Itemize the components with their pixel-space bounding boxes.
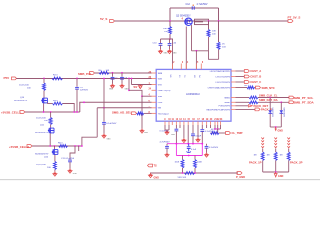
node small connector left of bottom rail	[148, 164, 153, 167]
pin bottom 22 of U1	[217, 121, 219, 125]
svg-text:VDB: VDB	[158, 78, 163, 80]
wire top bypass left vertical	[169, 8, 171, 21]
pin bottom 16 of U1	[192, 121, 194, 125]
svg-text:GND: GND	[278, 130, 284, 133]
pin left 24 CMBTTG(PG) of U1	[152, 89, 157, 91]
resistor R10 below Q12	[54, 155, 56, 162]
pin bottom 17 of U1	[197, 121, 199, 125]
svg-text:100pF: 100pF	[195, 135, 201, 137]
svg-text:SMB_NTC: SMB_NTC	[262, 86, 275, 90]
resistor R15 1M sense divider	[262, 149, 264, 153]
resistor R8 10K	[208, 21, 210, 30]
pin top 4 of U1	[185, 64, 187, 70]
svg-text:PACKP/SHLP/CMP/2GPS: PACKP/SHLP/CMP/2GPS	[206, 108, 230, 111]
wire to pin5	[142, 95, 152, 97]
junction bottom rail left	[182, 172, 184, 174]
svg-text:C12: C12	[186, 3, 191, 6]
svg-text:1M: 1M	[254, 155, 257, 157]
svg-text:10,15,100: 10,15,100	[36, 164, 47, 166]
svg-text:+5VSB_CELL1: +5VSB_CELL1	[1, 110, 21, 114]
transistor Q3 SI9435DY	[185, 18, 192, 25]
junction on bus at x208.5	[208, 20, 210, 22]
wire +5V feed	[17, 78, 152, 80]
pin right 19 SMB0 of U1	[231, 101, 236, 103]
resistor R20 on bottom rail	[185, 172, 195, 175]
svg-text:VIN: VIN	[158, 108, 162, 110]
junction magenta x202	[201, 143, 203, 145]
pin left 8 Thermalpad of U1	[152, 112, 157, 114]
svg-text:GND: GND	[154, 177, 160, 180]
junction gate node	[196, 50, 198, 52]
svg-text:AOZ9006AI: AOZ9006AI	[186, 92, 200, 96]
capacitor C14 100pF	[192, 125, 194, 133]
svg-text:10K: 10K	[163, 28, 167, 30]
wire gate node step	[209, 51, 219, 60]
pin right 22 LX/OUT2/2GPS of U1	[231, 81, 236, 83]
node CL off-page connector	[226, 132, 231, 135]
ground below C10	[160, 49, 162, 51]
pin right 17 PACKP/SHLP/CMP/2GPS of U1	[231, 108, 236, 110]
svg-text:Q3 SI9435DY: Q3 SI9435DY	[176, 15, 191, 18]
test point symbol below pin3 wire	[139, 85, 141, 86]
capacitor C7	[112, 73, 114, 77]
resistor R11 to pin8	[136, 112, 138, 114]
wire pin x188 to magenta net	[187, 125, 189, 144]
capacitor C11 0.1uF/50	[68, 159, 72, 161]
wire bottom rail	[150, 172, 238, 174]
capacitor C9 0.1uF/50V	[103, 79, 105, 122]
wire Q10 source down to feed2	[43, 103, 45, 112]
pin bottom 10 of U1	[168, 121, 170, 125]
svg-text:LX/OUT2/2GPS: LX/OUT2/2GPS	[216, 82, 231, 84]
resistor R3 10K gate	[43, 78, 45, 83]
svg-text:GND: GND	[144, 132, 149, 134]
resistor R19 100K	[194, 156, 196, 160]
resistor R16 1M sense divider	[275, 149, 277, 153]
resistor R9 0 on Q10 drain line	[53, 102, 63, 105]
pin bottom 9 of U1	[164, 121, 166, 125]
wire top bypass horizontal	[170, 7, 219, 9]
resistor R7 10K gate pull-up	[169, 21, 171, 27]
wire feed3 stub down x78.7	[78, 146, 80, 151]
svg-text:LX/OUT1/2GPS: LX/OUT1/2GPS	[216, 76, 231, 78]
pin bottom 15 of U1	[187, 121, 189, 125]
capacitor C8	[121, 73, 123, 77]
pin top 3 of U1	[180, 64, 182, 70]
pin bottom 18 of U1	[201, 121, 203, 125]
resistor R9 1K	[218, 21, 220, 42]
svg-text:SMB_PT_SDA: SMB_PT_SDA	[294, 101, 315, 105]
ground at left end of bottom rail	[150, 173, 152, 175]
pin top 5 of U1	[195, 64, 197, 70]
junction pin7 cap branch	[103, 107, 105, 109]
wire gate node horizontal	[192, 50, 209, 52]
svg-text:R9 0: R9 0	[53, 100, 58, 102]
svg-text:CHST_A: CHST_A	[250, 69, 261, 73]
ground pin x198	[197, 125, 199, 138]
junction x129 lower	[128, 89, 130, 91]
pin bottom 20 of U1	[210, 121, 212, 125]
svg-text:CL_TMP: CL_TMP	[232, 131, 243, 135]
svg-text:0.1uF: 0.1uF	[191, 149, 197, 151]
junction feed3 Q12	[54, 145, 56, 147]
wire current limit pins	[214, 125, 216, 129]
wire diode bottoms	[270, 126, 281, 128]
wire gate node to IC top pin	[195, 51, 197, 70]
capacitor C12 4.7uF/50V	[191, 6, 193, 9]
ground below C11	[69, 169, 71, 171]
junction +5V at Q10 branch	[43, 78, 45, 80]
wire sense chevron column 1	[261, 138, 264, 140]
svg-text:CHST_B: CHST_B	[250, 75, 261, 79]
pin bottom 11 of U1	[171, 121, 173, 125]
diode D1 B5819WS	[269, 98, 271, 111]
svg-text:VTB: VTB	[158, 84, 163, 86]
capacitor C19 4.7uF right	[206, 144, 208, 146]
wire sense bottoms	[263, 171, 289, 173]
junction feed2 Q10	[43, 111, 45, 113]
junction SMB data diode branch	[280, 101, 282, 103]
wire magenta right vertical	[201, 144, 203, 156]
wire pins x206 x210 down	[206, 125, 208, 128]
junction magenta x176	[176, 143, 178, 145]
svg-text:SMB_DAT_DA: SMB_DAT_DA	[259, 98, 278, 102]
junction pin6 line	[83, 101, 85, 103]
transistor Q11 SI2305DS	[50, 125, 52, 128]
pin right 18 POE2/2GPS of U1	[231, 105, 236, 107]
junction SMB clock diode branch	[269, 97, 271, 99]
svg-text:PWR: PWR	[158, 102, 163, 104]
ground below sense block	[274, 174, 277, 177]
wire SMB data net with resistor R14	[236, 101, 250, 103]
junction SMB cap1	[112, 72, 114, 74]
svg-text:CMBTTG(PG): CMBTTG(PG)	[158, 90, 171, 92]
junction +5V at x129	[128, 78, 130, 80]
svg-text:PT_5V_S: PT_5V_S	[288, 15, 301, 19]
svg-text:SI2305DS/TV: SI2305DS/TV	[35, 154, 49, 156]
svg-text:GND: GND	[171, 134, 176, 136]
junction diode bottom center	[275, 126, 277, 128]
svg-text:1uF/50V: 1uF/50V	[80, 90, 89, 92]
svg-text:WV: WV	[134, 86, 138, 89]
svg-text:SMB_CLK_CL: SMB_CLK_CL	[259, 93, 278, 97]
junction feed2 Q11 branch	[50, 111, 52, 113]
svg-text:SMB: SMB	[158, 73, 163, 75]
svg-text:SMB_AD_SEL: SMB_AD_SEL	[112, 111, 132, 115]
resistor R17 1M sense divider	[288, 149, 290, 153]
svg-text:SMB1: SMB1	[224, 97, 230, 99]
wire magenta left vertical	[175, 144, 177, 156]
junction +5V at cap branch	[76, 78, 78, 80]
svg-text:SI2305DS/TV: SI2305DS/TV	[14, 100, 28, 102]
wire pin4 net	[129, 90, 142, 96]
pin left 6 PWR of U1	[152, 101, 157, 103]
svg-text:GND: GND	[125, 89, 130, 91]
resistor R17 current limit	[211, 132, 220, 135]
pin right 21 CHSTTCMACONE2GPS of U1	[231, 87, 236, 89]
junction magenta bottom center	[188, 155, 190, 157]
svg-text:0.1uF/50: 0.1uF/50	[160, 130, 169, 132]
wire Q10 drain line to pin6 line	[46, 102, 49, 104]
svg-text:+5VSB_CELL2: +5VSB_CELL2	[9, 145, 29, 149]
resistor R5 on Q11 branch	[50, 112, 52, 118]
pin bottom 21 of U1	[214, 121, 216, 125]
wire magenta net top	[167, 143, 202, 145]
resistor R4 103 on SMB wire	[99, 71, 109, 74]
svg-text:R2 0: R2 0	[53, 75, 58, 77]
pin right 23 LX/OUT1/2GPS of U1	[231, 76, 236, 78]
svg-text:GND: GND	[164, 53, 169, 55]
svg-text:B5819WS: B5819WS	[272, 107, 274, 117]
transistor Q10 SI2305DS	[43, 91, 45, 98]
junction on bus at x170	[169, 20, 171, 22]
wire R8 to gate node	[208, 37, 210, 51]
pin bottom 19 of U1	[206, 121, 208, 125]
resistor R6 on feed3	[59, 145, 68, 148]
junction feed3 x75	[74, 145, 76, 147]
wire right pin PACK_P	[236, 108, 256, 110]
svg-text:PACK_2P: PACK_2P	[290, 160, 303, 164]
svg-text:SMB_PT_SCL: SMB_PT_SCL	[294, 96, 314, 100]
pin bottom 23 of U1	[220, 121, 222, 125]
junction feed2 x77	[76, 111, 78, 113]
svg-text:SMB_P/U: SMB_P/U	[78, 72, 91, 76]
resistor R2 on +5V feed	[52, 77, 63, 80]
diode D2 B5819WS	[280, 102, 282, 110]
wire right status net CHST_A	[236, 70, 245, 72]
svg-text:B5819WS: B5819WS	[284, 107, 286, 117]
junction on bus at x218.5	[218, 20, 220, 22]
fuse F1 series element	[195, 19, 209, 24]
svg-text:Thermalpad: Thermalpad	[158, 113, 169, 115]
svg-text:VR1 103: VR1 103	[178, 177, 187, 179]
svg-text:P_GND: P_GND	[236, 175, 245, 179]
ground below C16	[169, 49, 171, 51]
wire x129 branch down	[128, 78, 130, 90]
svg-text:CHST_C: CHST_C	[250, 80, 261, 84]
svg-text:SMB0: SMB0	[224, 102, 230, 104]
svg-text:SI2305DS/TV: SI2305DS/TV	[35, 132, 49, 134]
svg-text:GND: GND	[109, 89, 114, 91]
svg-text:GND: GND	[278, 175, 284, 178]
ground below C18	[166, 153, 168, 155]
pin left 1 VTB of U1	[152, 84, 157, 86]
svg-text:100K: 100K	[175, 162, 180, 164]
ground below C19	[206, 153, 208, 155]
svg-text:4.7uF/50V: 4.7uF/50V	[197, 3, 208, 6]
junction feed3 x78.7	[78, 145, 80, 147]
pin right 24 LX/OUT1A/POE2/2PD of U1	[231, 70, 236, 72]
wire feed2 up to pin6 line	[80, 102, 152, 112]
svg-text:GND: GND	[173, 53, 178, 55]
svg-text:C11 0.1uF/50: C11 0.1uF/50	[61, 158, 75, 160]
svg-text:TS: TS	[154, 165, 158, 168]
pin bottom 14 of U1	[183, 121, 185, 125]
ground pin x183.9	[183, 125, 185, 138]
ground below C7	[112, 84, 114, 86]
wire top bypass right vertical	[218, 8, 220, 21]
svg-text:GND: GND	[107, 139, 112, 141]
wire Q3 source to IC top pin	[185, 27, 187, 70]
capacitor C15 4.7uF/50V	[201, 125, 203, 129]
svg-text:PACK_1P: PACK_1P	[249, 160, 262, 164]
pin left 4 VGB of U1	[152, 95, 157, 97]
wire feed2	[25, 111, 80, 113]
wire x75 down to cap	[70, 146, 75, 160]
svg-text:CHSTTCMACONE2GPS: CHSTTCMACONE2GPS	[208, 86, 231, 89]
wire Q11 down to feed3	[49, 133, 51, 146]
pin right 20 SMB1 of U1	[231, 97, 236, 99]
svg-text:1M: 1M	[280, 155, 283, 157]
svg-text:1M: 1M	[267, 155, 270, 157]
wire main 5V bus	[115, 20, 289, 22]
pin left 7 VIN of U1	[152, 107, 157, 109]
svg-text:PACK_DET: PACK_DET	[254, 104, 269, 108]
wire SMB to pin1	[95, 72, 152, 74]
pin left 26 VDB of U1	[152, 78, 157, 80]
pin bottom 13 of U1	[179, 121, 181, 125]
wire sense chevron column 3	[287, 138, 290, 140]
ground below C9	[103, 134, 105, 136]
wire cap rail to IC top pin	[172, 39, 174, 69]
pin left 28 SMB of U1	[152, 72, 157, 74]
svg-text:P5V: P5V	[4, 76, 10, 80]
wire feed3 branch up	[82, 137, 97, 146]
wire R9 bottom	[218, 50, 220, 60]
svg-text:4.7uF/50V: 4.7uF/50V	[160, 142, 171, 144]
wire cap rail horizontal	[161, 38, 174, 40]
svg-text:R6 0: R6 0	[58, 142, 63, 144]
pin bottom 12 of U1	[175, 121, 177, 125]
svg-text:10,15,100: 10,15,100	[36, 117, 47, 119]
svg-text:10,15,100: 10,15,100	[19, 84, 30, 86]
wire resistor to cap rail	[169, 34, 171, 39]
capacitor C10 10uF	[160, 39, 162, 43]
wire Q10 drain to the right	[47, 103, 52, 105]
ground arrow below diodes	[275, 129, 277, 132]
junction bottom rail right	[194, 172, 196, 174]
junction feed1 x104	[103, 78, 105, 80]
capacitor C16 10uF	[169, 39, 171, 43]
junction magenta x193	[192, 143, 194, 145]
wire right pin PACK_DET	[236, 105, 249, 107]
junction feed3 Q11	[49, 145, 51, 147]
wire right status net CHST_B	[236, 76, 245, 78]
wire pin3 branch from feed1	[131, 79, 133, 85]
resistor R12 NTC net	[236, 87, 248, 89]
transistor Q12 SI2305DS	[54, 146, 56, 149]
wire to current limit resistor	[217, 129, 219, 133]
svg-text:LX/OUT1A/POE2/2PD: LX/OUT1A/POE2/2PD	[210, 70, 231, 73]
wire SMB clock net with resistor R13	[236, 97, 250, 99]
node PT output off-page connector	[288, 20, 293, 23]
ground below C8	[121, 84, 123, 86]
junction SMB cap2	[121, 72, 123, 74]
capacitor C13 0.1uF/50V	[175, 125, 177, 129]
capacitor C18 4.7uF left	[166, 144, 168, 146]
junction sense bottom	[275, 171, 277, 173]
wire bottom pins 10 11 to ground	[164, 125, 166, 130]
svg-text:5V_S: 5V_S	[100, 17, 107, 21]
svg-text:100K: 100K	[197, 162, 202, 164]
pin top 2 of U1	[172, 64, 174, 70]
ground below x141	[141, 129, 143, 131]
junction feed3 x81.9	[81, 145, 83, 147]
junction x141	[141, 95, 143, 97]
capacitor C17 inside magenta loop	[188, 144, 190, 147]
resistor R18 100K	[182, 156, 184, 160]
svg-text:10K: 10K	[212, 31, 216, 33]
wire x97 down	[96, 108, 98, 137]
junction caps rail	[169, 38, 171, 40]
junction feed2 x74	[73, 111, 75, 113]
svg-text:4.7uF/50V: 4.7uF/50V	[209, 147, 219, 149]
pin top 6 of U1	[200, 64, 202, 70]
wire Q3 gate down	[191, 25, 193, 51]
op-amp U1 controller IC body	[156, 69, 231, 121]
capacitor C5 1uF/50V branch	[76, 78, 78, 86]
svg-text:POE2/2GPS: POE2/2GPS	[219, 106, 231, 108]
wire pin down x180	[179, 125, 181, 128]
junction magenta x188	[187, 143, 189, 145]
wire magenta bottom	[176, 155, 202, 157]
ground below R10	[54, 170, 56, 172]
wire feed3	[32, 145, 82, 147]
node bottom rail off-page connector	[237, 172, 242, 175]
wire sense chevron column 2	[274, 138, 277, 140]
svg-text:VGB: VGB	[158, 96, 163, 98]
wire x141 down to ground	[141, 96, 143, 128]
svg-text:GND: GND	[73, 173, 78, 175]
wire right status net CHST_C	[236, 81, 245, 83]
svg-text:0.1uF/50V: 0.1uF/50V	[106, 123, 117, 125]
wire pin7 line	[97, 107, 151, 109]
ground bottom pins left	[166, 130, 168, 132]
